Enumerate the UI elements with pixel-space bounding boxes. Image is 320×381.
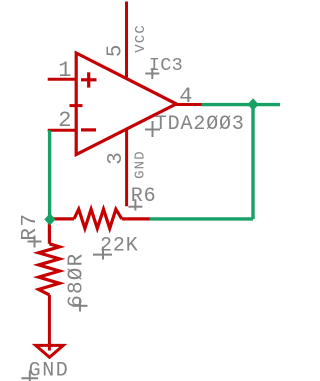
green horizontal wire to R6: [149, 217, 253, 220]
svg-text:R7: R7: [19, 213, 42, 241]
origin cross of label IC3: [145, 68, 159, 79]
green vertical wire on right (feedback): [251, 105, 254, 219]
green vertical wire on left from pin 2: [48, 130, 51, 219]
svg-text:68ØR: 68ØR: [66, 253, 89, 308]
svg-text:TDA2ØØ3: TDA2ØØ3: [155, 113, 245, 136]
origin cross of label TDA2003: [145, 121, 160, 137]
plus symbol (non-inverting input): [81, 72, 97, 87]
minus symbol (inverting input): [81, 128, 96, 131]
resistor R7 top lead: [48, 220, 51, 244]
green output wire from pin 4: [202, 103, 281, 106]
pin 1 wire (IN+): [48, 78, 77, 81]
pin 2 wire (IN-): [48, 129, 77, 132]
origin cross of label 22K: [93, 247, 112, 260]
resistor R6 right lead: [122, 217, 150, 220]
pin 3 wire (GND): [125, 130, 128, 207]
svg-text:GND: GND: [133, 150, 149, 179]
junction at feedback node: [44, 213, 55, 225]
svg-text:3: 3: [105, 152, 128, 165]
svg-text:1: 1: [58, 58, 71, 83]
svg-text:4: 4: [179, 84, 192, 109]
resistor R6 left lead: [50, 217, 74, 220]
resistor R7 bottom lead: [48, 295, 51, 351]
pin 5 wire (VCC): [125, 2, 128, 79]
origin cross of label 680R: [73, 300, 88, 312]
resistor R7 zigzag body: [39, 244, 60, 295]
resistor R6 zigzag body: [74, 209, 122, 228]
svg-text:VCC: VCC: [133, 24, 149, 53]
pin 4 wire (OUT): [176, 103, 202, 106]
origin cross of label GND: [21, 371, 38, 381]
junction at output node: [248, 98, 259, 110]
op-amp origin tick on left edge: [70, 104, 83, 107]
svg-text:2: 2: [58, 108, 71, 133]
svg-text:5: 5: [105, 44, 128, 57]
origin cross of label R6: [128, 199, 142, 210]
ground symbol triangle: [36, 345, 64, 357]
op-amp IC3 triangle body: [76, 53, 176, 155]
origin cross of label R7: [28, 236, 42, 248]
